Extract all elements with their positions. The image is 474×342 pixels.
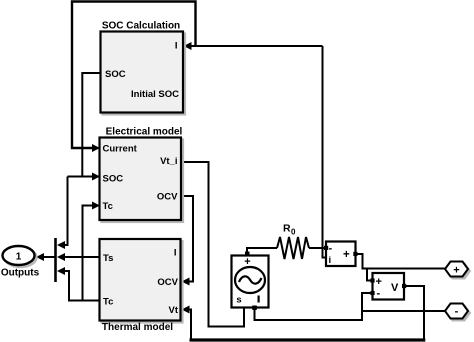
outport oval: Outputs [3, 246, 35, 265]
label: - inside hexagon [455, 306, 459, 318]
svg-text:-: - [329, 243, 333, 255]
wire: Ts output of Thermal model to Mux input 2 [64, 256, 100, 258]
port label: Tc input of Electrical model [103, 201, 113, 212]
svg-text:Outputs: Outputs [1, 268, 40, 279]
svg-text:SOC Calculation: SOC Calculation [102, 21, 180, 32]
svg-text:+: + [453, 265, 459, 277]
wire: Vt_i from Electrical model down and around to Controlled Voltage Source s input [181, 162, 244, 327]
wire: branch of i signal over the top to Electrical model Current input [72, 2, 196, 149]
label: - terminal of voltage source (rotated minus) [258, 296, 260, 303]
port label: s input of voltage source [236, 295, 241, 306]
wire: Mux output to Outputs outport [43, 256, 55, 258]
connection port: + hexagon [445, 262, 468, 277]
wire: Tc branch up to Electrical model Tc input [83, 206, 93, 301]
port label: Vt input of Thermal model [169, 305, 179, 316]
port label: SOC output of SOC Calculation [105, 69, 126, 80]
svg-text:OCV: OCV [157, 192, 178, 203]
svg-text:V: V [391, 282, 399, 294]
svg-text:Tc: Tc [103, 297, 113, 308]
svg-text:Initial SOC: Initial SOC [131, 89, 179, 100]
svg-text:+: + [376, 276, 382, 288]
mux bar [54, 238, 57, 282]
port label: Current input of Electrical model [103, 144, 138, 155]
svg-text:Current: Current [103, 144, 138, 155]
controlled voltage source block [232, 256, 269, 308]
port square: voltage measurement V output [402, 284, 406, 288]
arrowhead into SOC Calculation I port [184, 42, 192, 50]
svg-text:R: R [283, 223, 291, 235]
svg-text:I: I [174, 248, 177, 259]
label: + terminal of current measurement [343, 249, 350, 261]
subsystem block: Electrical model [100, 138, 182, 221]
sine source circle of voltage source [235, 267, 265, 293]
resistor R0 label [283, 223, 296, 237]
port square: voltage source + terminal [245, 252, 250, 257]
wire: Voltage Measurement V output down and along bottom to Thermal model Vt input [189, 286, 426, 340]
label: + terminal of voltage source [244, 256, 250, 268]
svg-text:Ts: Ts [103, 253, 113, 264]
arrowhead into Mux input 2 [57, 253, 65, 261]
current measurement block [326, 242, 356, 267]
port square: voltage measurement + input [370, 278, 374, 282]
port square: current measurement + terminal [353, 252, 357, 256]
label: - input of voltage measurement [377, 288, 381, 300]
port square: voltage source - terminal [252, 306, 256, 311]
arrowhead into Outputs oval [36, 253, 44, 261]
wire: SOC branch down to Mux input 1 [64, 177, 68, 246]
connection port: - hexagon [445, 304, 468, 319]
label: Electrical model title [106, 127, 183, 138]
svg-text:Tc: Tc [103, 201, 113, 212]
arrowhead into Thermal model Vt port [182, 306, 190, 314]
svg-text:OCV: OCV [157, 277, 178, 288]
svg-text:SOC: SOC [103, 174, 124, 185]
label: Outputs [1, 268, 40, 279]
port label: Vt_i output of Electrical model [160, 156, 177, 167]
port label: Tc output of Thermal model [103, 297, 113, 308]
label: + inside hexagon [453, 265, 459, 277]
wire: Current Measurement + terminal to + connection port and Voltage Measurement + input [356, 254, 446, 281]
label: - terminal of current measurement [329, 243, 333, 255]
label: 1 inside outport oval [16, 252, 22, 263]
svg-text:I: I [175, 41, 178, 52]
port label: i output of current measurement [329, 255, 332, 266]
svg-text:0: 0 [291, 228, 296, 237]
wire: OCV from Electrical model down to Thermal model OCV input [181, 196, 193, 282]
svg-text:+: + [343, 249, 350, 261]
svg-text:1: 1 [16, 252, 22, 263]
svg-text:Vt_i: Vt_i [160, 156, 177, 167]
svg-text:-: - [377, 288, 381, 300]
arrowhead into Mux input 1 [57, 241, 65, 249]
svg-text:SOC: SOC [105, 69, 126, 80]
port label: Ts output of Thermal model [103, 253, 113, 264]
label: SOC Calculation title [102, 21, 180, 32]
subsystem block: SOC Calculation [101, 32, 184, 113]
port label: Initial SOC of SOC Calculation [131, 89, 179, 100]
port square: voltage measurement - input [370, 291, 374, 295]
svg-text:s: s [236, 295, 241, 306]
arrowhead into Electrical model Current port [92, 144, 100, 152]
label: Thermal model title [102, 322, 173, 333]
wire: Controlled Voltage Source + terminal through resistor R0 to Current Measurement - terminal [247, 237, 326, 259]
arrowhead into Electrical model SOC port [92, 173, 100, 181]
svg-text:Vt: Vt [169, 305, 179, 316]
port square: current measurement - terminal [324, 246, 328, 250]
voltage measurement block [373, 273, 405, 300]
svg-text:Thermal model: Thermal model [102, 322, 173, 333]
label: + input of voltage measurement [376, 276, 382, 288]
wire: Tc output of Thermal model to Mux input 3 [64, 271, 100, 301]
wire: measured current i from Current Measurement up and left along top to SOC Calculation I input [192, 46, 327, 258]
port label: OCV input of Thermal model [157, 277, 178, 288]
svg-text:-: - [455, 306, 459, 318]
svg-text:i: i [329, 255, 332, 266]
subsystem block: Thermal model [100, 239, 181, 321]
wire: SOC from SOC Calculation down to Electrical model SOC input [68, 73, 101, 177]
arrowhead into Electrical model Tc port [92, 202, 100, 210]
label: V of voltage measurement [391, 282, 399, 294]
port label: SOC input of Electrical model [103, 174, 124, 185]
port label: OCV output of Electrical model [157, 192, 178, 203]
arrowhead into Thermal model OCV port [182, 278, 190, 286]
arrowhead into Mux input 3 [57, 267, 65, 275]
port label: I input of Thermal model [174, 248, 177, 259]
port label: I input of SOC Calculation [175, 41, 178, 52]
wire: Controlled Voltage Source - terminal to Voltage Measurement - input and - connection port [255, 293, 446, 320]
svg-text:Electrical model: Electrical model [106, 127, 183, 138]
